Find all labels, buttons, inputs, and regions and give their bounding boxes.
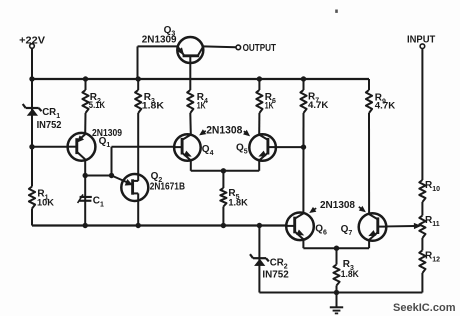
svg-text:1.8K: 1.8K	[341, 269, 359, 280]
svg-text:INPUT: INPUT	[407, 34, 435, 45]
svg-text:2N1309: 2N1309	[142, 34, 177, 45]
svg-text:1K: 1K	[197, 101, 206, 112]
svg-text:2N1308: 2N1308	[206, 124, 242, 136]
svg-text:5.1K: 5.1K	[89, 100, 105, 111]
svg-text:4.7K: 4.7K	[308, 100, 328, 111]
svg-text:1.8K: 1.8K	[228, 198, 247, 209]
svg-text:4.7K: 4.7K	[375, 101, 395, 112]
svg-text:OUTPUT: OUTPUT	[243, 43, 276, 54]
svg-text:1K: 1K	[265, 101, 274, 112]
svg-text:1.8K: 1.8K	[142, 101, 164, 112]
svg-text:2N1671B: 2N1671B	[150, 181, 185, 192]
svg-text:SeekIC.com: SeekIC.com	[393, 302, 456, 314]
svg-text:IN752: IN752	[262, 269, 289, 280]
svg-text:2N1308: 2N1308	[320, 200, 355, 211]
svg-text:+22V: +22V	[19, 35, 45, 46]
svg-text:IN752: IN752	[37, 120, 62, 131]
svg-text:10K: 10K	[37, 198, 54, 209]
svg-text:2N1309: 2N1309	[92, 128, 122, 139]
